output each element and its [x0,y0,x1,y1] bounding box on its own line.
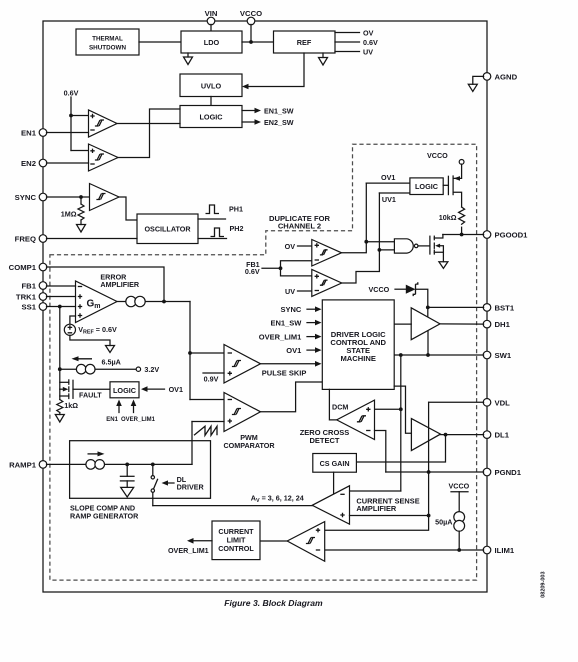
block CS GAIN [313,454,357,473]
wire current limit output [260,540,287,542]
svg-text:CONTROL: CONTROL [218,544,254,553]
block DRIVER LOGIC CONTROL AND STATE MACHINE [322,300,394,390]
junction ILIM [457,548,461,552]
junction pulse skip branch [188,351,192,355]
svg-text:0.6V: 0.6V [64,89,79,98]
label VCCO 50uA [449,482,470,512]
svg-text:UVLO: UVLO [201,82,222,91]
wire PGOOD1 [443,234,484,236]
svg-text:DH1: DH1 [495,320,511,329]
block slope comp and ramp generator [70,441,211,499]
wire UV input [285,287,312,296]
wire EN2_SW output [242,118,294,127]
wire to PWM comparator minus [190,399,224,401]
resistor 1k ohm [57,400,78,413]
pin FREQ [15,235,47,244]
pin COMP1 [9,263,47,272]
arrow DL DRIVER pointing at switch [162,475,205,491]
wire error amp output down [189,302,191,400]
junction PGND [427,470,431,474]
wire zero cross output to driver logic [329,389,336,420]
junction OV1 nand [364,240,368,244]
wire driver logic to DH driver [394,323,411,325]
svg-text:CHANNEL 2: CHANNEL 2 [278,222,321,231]
node 0.9V [203,373,224,384]
svg-text:50µA: 50µA [435,518,452,527]
pin EN2 [21,159,47,168]
wire diode to BST node [416,289,428,317]
junction capacitor [125,463,129,467]
wire CS gain to amplifier [333,472,335,494]
svg-text:REF: REF [297,38,312,47]
svg-text:EN2_SW: EN2_SW [264,118,294,127]
pin DL1 [483,431,510,440]
wire EN1 comparator output to LOGIC [117,123,180,125]
wire CS amp plus [350,515,429,517]
wire EN1_SW output [242,107,294,116]
svg-text:PULSE SKIP: PULSE SKIP [262,369,307,378]
pin EN1 [21,129,47,138]
wire EN1_SW input [270,318,321,327]
wire PH2 output [198,224,243,239]
wire VDL to DL driver [428,402,430,472]
wire 0.6V to EN2 comparator plus [71,150,89,152]
svg-text:COMPARATOR: COMPARATOR [223,441,275,450]
node 0.6V reference [64,89,79,151]
junction CS plus [427,514,431,518]
wire zero cross minus [375,431,386,473]
svg-text:BST1: BST1 [495,303,515,312]
block UVLO [180,74,242,97]
transistor FAULT MOSFET [60,380,110,400]
svg-text:LOGIC: LOGIC [415,182,439,191]
svg-text:LOGIC: LOGIC [199,113,223,122]
svg-text:ILIM1: ILIM1 [495,546,515,555]
svg-text:OV1: OV1 [169,385,183,394]
junction SS1 [58,305,62,309]
wire FB1 to UV comparator plus [281,268,312,276]
pin VDL [483,398,510,407]
wire driver logic to DL driver [394,386,411,433]
svg-text:SS1: SS1 [21,303,36,312]
junction SW driver [426,353,430,357]
wire UV1 to nand input [379,249,394,251]
svg-text:DETECT: DETECT [310,436,340,445]
svg-text:SW1: SW1 [495,351,512,360]
wire EN1 pin to comparator [47,132,89,134]
wire LDO to REF [242,41,274,43]
block pgood LOGIC [410,178,443,195]
wire thermal shutdown to LDO [139,41,181,43]
junction UV1 nand [378,248,382,252]
wire SW1 [394,354,483,356]
svg-text:AV = 3, 6, 12, 24: AV = 3, 6, 12, 24 [251,494,304,504]
junction DL1 [444,433,448,437]
wire ramp riser [191,422,193,465]
comparator EN1 [89,110,118,137]
block LOGIC (enable) [180,106,242,128]
capacitor ramp [120,464,134,487]
pin FB1 [21,282,46,291]
wire current limit plus [325,516,429,531]
svg-text:1kΩ: 1kΩ [64,401,78,410]
wire SYNC pin to comparator [47,196,90,198]
svg-text:EN1: EN1 [21,129,37,138]
ground at REF [319,58,328,66]
pin BST1 [483,303,515,312]
pin PGOOD1 [483,231,528,240]
wire 1M to ground [80,220,82,225]
block LDO [181,31,242,53]
junction VCCO [249,40,253,44]
svg-text:UV: UV [285,287,295,296]
svg-text:AGND: AGND [495,72,518,81]
svg-text:VIN: VIN [205,9,218,18]
wire to pulse skip comparator minus [190,352,224,354]
pin PGND1 [483,468,522,477]
pin TRK1 [16,293,47,302]
pin ILIM1 [483,546,515,555]
wire PWM output to driver logic [261,382,323,412]
svg-text:EN2: EN2 [21,159,36,168]
svg-text:0.6V: 0.6V [363,38,378,47]
wire REF to UVLO [247,53,304,87]
wire SS1 node down [59,307,61,400]
wire COMP1 to error amplifier output [47,267,165,302]
wire RAMP1 pin to current source [47,463,193,465]
svg-text:10kΩ: 10kΩ [439,213,457,222]
label ZERO CROSS DETECT [300,428,350,445]
wire OV1 to nand input [366,241,394,243]
junction COMP1 node [162,300,166,304]
wire 50uA to ILIM node [458,531,460,550]
wire pulse skip output [261,361,322,378]
svg-text:UV: UV [363,48,373,57]
wire DH1 [440,323,484,325]
pin AGND [483,72,517,81]
label DUPLICATE FOR CHANNEL 2 [269,214,331,231]
svg-text:OVER_LIM1: OVER_LIM1 [168,546,209,555]
wire EN2 comparator output to LOGIC [118,109,180,158]
svg-text:CS GAIN: CS GAIN [320,459,350,468]
pin DH1 [483,320,510,329]
ground at VREF [106,346,115,353]
wire DH driver to SW node [427,331,429,355]
svg-text:PH1: PH1 [229,205,243,214]
svg-text:RAMP GENERATOR: RAMP GENERATOR [70,511,139,520]
wire EN1 into fault logic [106,400,122,424]
svg-text:EN1_SW: EN1_SW [264,107,294,116]
wire FB1 pin to error amp [47,285,76,287]
switch DL driver [151,464,158,505]
junction BST [426,306,430,310]
diode BST schottky [406,282,418,296]
wire BST1 [428,306,484,308]
current source ramp [86,451,105,469]
wire FB1 to OV comparator minus [281,261,312,269]
wire UV comparator output [342,193,380,283]
comparator OV [312,240,342,267]
svg-text:AMPLIFIER: AMPLIFIER [356,504,396,513]
junction FB1 [279,266,283,270]
svg-text:VCCO: VCCO [427,151,448,160]
ground at 1k resistor [55,415,64,423]
pin VIN [205,9,218,25]
block fault LOGIC [110,382,139,398]
svg-text:0.6V: 0.6V [245,267,260,276]
svg-text:1MΩ: 1MΩ [61,210,77,219]
svg-text:VCCO: VCCO [369,285,390,294]
svg-text:SYNC: SYNC [15,193,37,202]
svg-text:OV: OV [363,29,374,38]
wire SYNC input [280,305,321,314]
ground at pgood NMOS [439,262,448,269]
source VREF 0.6V [64,324,117,335]
junction SW sense [399,353,403,357]
wire PGND to CS amp plus [428,472,430,516]
wire REF output OV [335,29,374,38]
op-amp error amplifier Gm [76,281,118,323]
junction PGOOD [460,233,464,237]
svg-text:SHUTDOWN: SHUTDOWN [89,45,127,52]
svg-text:DRIVER: DRIVER [177,482,205,491]
wire OVER_LIM1 output [168,538,212,555]
wire SS1 pin to error amp [47,306,76,308]
svg-text:LDO: LDO [204,38,220,47]
wire VCCO to diode [395,288,406,290]
svg-text:THERMAL: THERMAL [92,36,123,43]
wire OV1 input [286,346,321,355]
svg-text:OVER_LIM1: OVER_LIM1 [121,417,156,423]
svg-text:VDL: VDL [495,398,511,407]
wire zero cross plus [375,408,401,410]
wire VDL [429,401,484,403]
arrowhead into UVLO [242,84,249,90]
svg-text:VCCO: VCCO [240,9,262,18]
svg-text:OV1: OV1 [286,346,301,355]
svg-text:FREQ: FREQ [15,235,36,244]
block OSCILLATOR [137,214,198,244]
svg-text:PGOOD1: PGOOD1 [495,231,529,240]
block CURRENT LIMIT CONTROL [212,521,260,560]
svg-text:DCM: DCM [332,403,348,412]
svg-text:OVER_LIM1: OVER_LIM1 [259,332,302,341]
op-amp DH driver [411,308,440,340]
svg-text:VCCO: VCCO [449,482,470,491]
svg-text:COMP1: COMP1 [9,263,37,272]
wire PGND1 [386,471,484,473]
ground at ramp capacitor [121,487,134,497]
current mirror on error amp output [126,296,145,306]
comparator zero cross detect [337,400,375,439]
wire ramp to PWM plus [192,421,224,423]
wire OV comparator output [342,183,367,253]
comparator pulse skip [224,345,261,384]
wire OVER_LIM1 input [259,332,322,341]
svg-text:AMPLIFIER: AMPLIFIER [100,280,140,289]
junction zero cross plus [399,407,403,411]
junction switch [151,463,155,467]
svg-text:0.9V: 0.9V [204,375,219,384]
wire VREF to error amp [70,316,76,324]
wire VCCO down [250,24,252,42]
junction SYNC [79,195,83,199]
ground at 1M resistor [77,225,86,233]
svg-text:UV1: UV1 [382,195,396,204]
wire VREF to ground [70,335,110,345]
label CURRENT SENSE AMPLIFIER [356,496,419,513]
svg-text:08209-003: 08209-003 [541,571,547,597]
IC outline border [43,21,487,592]
label ERROR AMPLIFIER [100,272,140,288]
wire DL1 to CS gain [356,435,445,462]
wire UVLO to LOGIC [210,97,212,106]
wire REF ground stem [322,53,324,58]
terminal VCCO pgood [459,160,464,165]
terminal 3.2V [136,365,159,374]
label SLOPE COMP AND RAMP GENERATOR [70,504,139,521]
wire PH1 output [198,205,243,220]
transistor pgood PMOS [443,164,461,207]
wire 0.6V to EN1 comparator plus [71,115,89,117]
wire 10k to PGOOD node [461,227,463,234]
comparator UV [312,269,342,296]
wire SW sense to CS amp minus [350,490,401,492]
svg-text:EN1_SW: EN1_SW [270,318,302,327]
svg-text:OV: OV [285,242,296,251]
svg-text:6.5µA: 6.5µA [102,358,121,367]
junction 0.6V to EN1 comparator [69,114,73,118]
svg-text:TRK1: TRK1 [16,293,37,302]
comparator EN2 [89,144,119,171]
svg-text:FAULT: FAULT [79,391,102,400]
svg-text:EN1: EN1 [106,417,118,423]
pin VCCO [240,9,262,25]
wire SYNC comparator to oscillator [119,197,137,220]
op-amp DL driver [411,419,440,451]
comparator SYNC [90,184,120,211]
wire ILIM1 [325,549,484,551]
node FB1 0.6V [245,260,281,276]
svg-text:PGND1: PGND1 [495,468,522,477]
svg-text:Figure 3. Block Diagram: Figure 3. Block Diagram [224,598,323,608]
wire DL1 [441,434,484,436]
wire OV1 into fault logic [141,385,183,394]
wire SW sense down [400,355,402,491]
wire to 6.5uA source [60,368,139,370]
pin SS1 [21,303,46,312]
wire OV1 to pgood logic [366,173,410,183]
svg-text:RAMP1: RAMP1 [9,460,37,469]
svg-text:FB1: FB1 [21,282,36,291]
svg-text:OV1: OV1 [381,173,395,182]
pin SW1 [483,351,512,360]
pin SYNC [15,193,47,202]
wire REF output 0.6V [335,38,378,47]
sawtooth ramp symbol [194,426,217,435]
wire REF output UV [335,48,373,57]
wire nand output to NMOS gate [418,245,430,247]
comparator PWM [224,393,261,432]
amplifier current sense [312,486,349,524]
resistor 10k ohm [439,207,465,224]
wire VIN to LDO [210,24,212,31]
ground at LDO [184,57,193,65]
svg-text:PH2: PH2 [230,224,244,233]
svg-text:SYNC: SYNC [280,305,301,314]
current source 50uA [435,512,464,532]
wire CS amp output to DL switch [153,505,312,507]
wire TRK1 pin to error amp [47,296,76,298]
wire OVER_LIM1 into fault logic [121,400,156,424]
junction 6.5uA branch [58,367,62,371]
resistor 1M ohm [61,197,84,220]
svg-text:MACHINE: MACHINE [340,354,375,363]
wire OV input [285,242,312,251]
pin RAMP1 [9,460,47,469]
wire 1k to ground [59,413,61,415]
wire EN2 pin to comparator [47,162,89,164]
wire LDO ground stem [187,53,189,57]
ground at AGND [468,84,477,91]
block THERMAL SHUTDOWN [76,29,139,55]
dashed channel-1 boundary [50,144,477,580]
block REF [274,31,336,53]
wire error amp output [117,301,190,303]
transistor pgood NMOS [430,235,444,262]
label PWM COMPARATOR [223,433,275,450]
svg-text:DL1: DL1 [495,431,510,440]
current source 6.5uA [72,356,121,374]
gate NAND pgood [394,239,418,253]
wire UV1 to pgood logic [379,193,410,204]
wire AGND ground [473,76,484,84]
svg-text:3.2V: 3.2V [144,365,159,374]
comparator current limit [287,522,325,562]
svg-text:OSCILLATOR: OSCILLATOR [144,225,191,234]
wire FREQ pin to oscillator [47,238,138,240]
svg-text:LOGIC: LOGIC [113,386,137,395]
